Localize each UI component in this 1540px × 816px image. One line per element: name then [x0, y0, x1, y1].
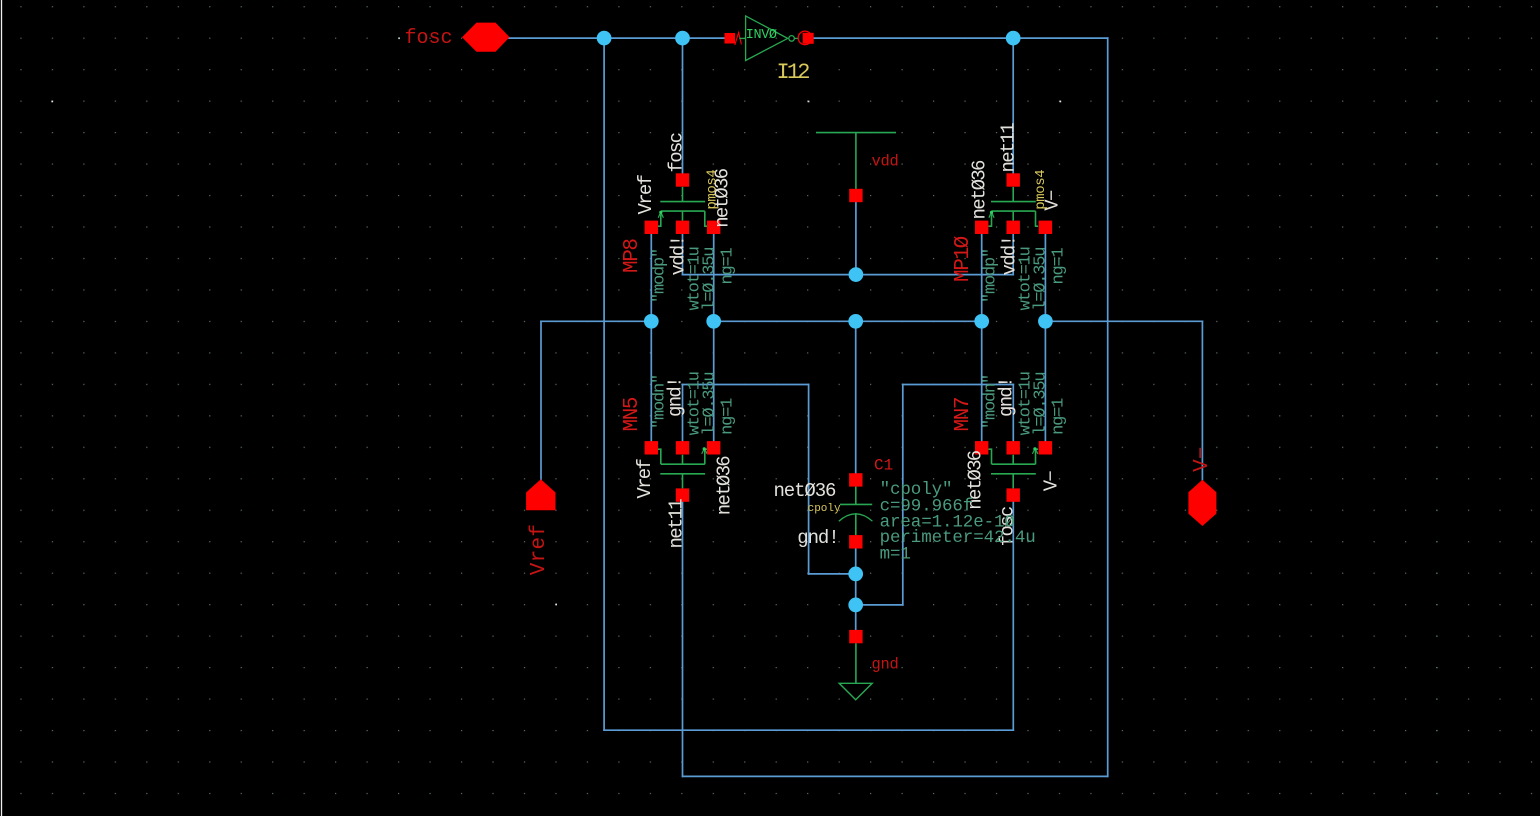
junction node fosc-B at x682 — [675, 31, 690, 46]
svg-text:l=Ø.35u: l=Ø.35u — [701, 373, 720, 436]
MN5 drain pin — [645, 441, 658, 454]
wire net11 bottom horizontal — [683, 775, 1108, 777]
wire V- drop to V- pin — [1201, 321, 1203, 480]
wire fosc bottom horizontal — [604, 729, 1013, 731]
wire fosc drop to MP8 gate — [682, 38, 684, 173]
port pin Vref (input pentagon) — [526, 479, 555, 510]
svg-text:m=1: m=1 — [880, 545, 911, 565]
svg-text:fosc: fosc — [665, 132, 687, 172]
junction node V- — [1038, 314, 1053, 329]
wire gnd stub into junction1 — [809, 573, 856, 575]
wire net11 horizontal from inverter output — [812, 37, 1108, 39]
port pin V- (output hexagon) — [1188, 480, 1216, 526]
inverter input stub — [739, 37, 745, 39]
svg-text:vdd: vdd — [872, 153, 899, 171]
bright grid mark A — [51, 101, 53, 103]
wire net036 horizontal — [714, 320, 982, 322]
wire gnd right horizontal — [903, 384, 1014, 386]
wire fosc riser to MN7 gate — [1012, 502, 1014, 731]
MP8 bulk pin — [676, 221, 689, 234]
wire gnd vertical C1-bottom to gnd symbol — [855, 542, 857, 637]
junction node net036-mid — [848, 314, 863, 329]
svg-text:l=Ø.35u: l=Ø.35u — [1031, 373, 1050, 436]
inverter triangle — [746, 16, 788, 61]
wire vdd to MP8 bulk pin — [682, 234, 684, 275]
MP10 bulk pin — [1007, 221, 1020, 234]
wire vdd stem below vdd symbol — [855, 202, 857, 275]
junction node net11 at x1013 — [1006, 31, 1021, 46]
wire net036 column MP10-left to MN7-left — [981, 234, 983, 441]
junction node Vref — [644, 314, 659, 329]
wire net11 drop to MP10 gate — [1012, 38, 1014, 173]
svg-text:ng=1: ng=1 — [1050, 398, 1069, 435]
svg-text:MN5: MN5 — [621, 397, 644, 431]
svg-text:MP1Ø: MP1Ø — [952, 236, 975, 282]
wire Vref horizontal — [541, 320, 651, 322]
wire Vref column MP8-left to MN5-left — [650, 234, 652, 441]
vdd stem — [855, 133, 857, 190]
svg-text:net11: net11 — [666, 499, 688, 549]
window border line left edge — [1, 0, 3, 816]
svg-text:ng=1: ng=1 — [719, 398, 738, 435]
svg-text:pmos4: pmos4 — [1033, 170, 1049, 210]
wire Vref drop to Vref pin — [540, 321, 542, 479]
ground pin square — [849, 630, 862, 643]
svg-text:l=Ø.35u: l=Ø.35u — [1031, 248, 1050, 311]
MN5 gate pin — [676, 488, 689, 501]
MN7 source pin — [1039, 441, 1052, 454]
wire net036 drop to C1 top — [855, 321, 857, 473]
svg-text:netØ36: netØ36 — [969, 160, 991, 220]
svg-text:V−: V− — [1041, 471, 1063, 492]
junction node net036-left — [706, 314, 721, 329]
MP8 drain pin — [707, 221, 720, 234]
MN5 bulk pin — [676, 441, 689, 454]
wire gnd MN5-bulk riser — [682, 385, 684, 442]
wire fosc vertical drop at x604 — [603, 38, 605, 730]
MN7 drain pin — [975, 441, 988, 454]
svg-text:I12: I12 — [777, 60, 810, 85]
inverter output bubble — [789, 36, 795, 42]
svg-text:gnd!: gnd! — [797, 527, 838, 549]
svg-text:net11: net11 — [998, 123, 1020, 173]
svg-text:MN7: MN7 — [952, 398, 975, 432]
svg-text:"modp": "modp" — [651, 249, 670, 303]
transistor MP10 (pmos4) symbol — [989, 187, 1039, 226]
MP10 source pin — [975, 221, 988, 234]
wire net036 column MP8-right to MN5-right — [713, 234, 715, 441]
svg-text:netØ36: netØ36 — [714, 456, 736, 516]
junction node net036-right — [974, 314, 989, 329]
svg-text:Vref: Vref — [634, 458, 656, 498]
transistor MP8 (pmos4) symbol — [658, 187, 708, 226]
svg-text:V−: V− — [1191, 447, 1214, 472]
wire vdd to MP10 bulk pin — [1012, 234, 1014, 275]
MP8 source pin — [645, 221, 658, 234]
wire gnd stub into junction2 — [856, 604, 903, 606]
MP10 drain pin — [1039, 221, 1052, 234]
junction node vdd stem — [849, 267, 864, 282]
ground triangle — [839, 683, 872, 700]
inverter U-I12 output pin square — [803, 33, 814, 44]
transistor MN5 (nmos) symbol — [658, 447, 708, 488]
svg-text:INVØ: INVØ — [746, 28, 777, 43]
capacitor C1 bottom plate arc — [839, 514, 873, 521]
svg-text:netØ36: netØ36 — [774, 480, 837, 502]
svg-text:MP8: MP8 — [621, 239, 644, 273]
MP10 gate pin — [1007, 173, 1020, 186]
MN7 bulk pin — [1007, 441, 1020, 454]
svg-text:l=Ø.35u: l=Ø.35u — [701, 248, 720, 311]
inverter output stub — [794, 37, 798, 39]
capacitor C1 symbol top plate — [855, 487, 857, 505]
bright grid mark E — [555, 604, 557, 606]
svg-text:fosc: fosc — [405, 27, 453, 50]
vdd pin square — [849, 189, 862, 202]
svg-text:C1: C1 — [874, 457, 893, 475]
inverter output red circle — [798, 31, 812, 45]
junction node gnd junction2 — [848, 598, 863, 613]
wire vdd horizontal rail — [683, 274, 1014, 276]
wire V- column MP10-right to MN7-right — [1044, 234, 1046, 441]
bright grid mark C — [808, 101, 810, 103]
wire gnd left vertical at x808 — [808, 385, 810, 574]
bright grid mark D — [1060, 101, 1062, 103]
svg-text:Vref: Vref — [528, 524, 551, 576]
wire net11 right vertical at x1107 — [1107, 38, 1109, 776]
MP8 gate pin — [676, 173, 689, 186]
capacitor C1 bottom lead — [855, 513, 857, 535]
wire gnd MN7-bulk riser — [1012, 385, 1014, 442]
MN7 gate pin — [1007, 488, 1020, 501]
power symbol vdd bar — [816, 132, 896, 134]
junction node gnd junction1 — [848, 567, 863, 582]
ground stem — [855, 643, 857, 683]
wire net11 riser to MN5 gate — [682, 502, 684, 777]
svg-text:gnd!: gnd! — [665, 378, 687, 417]
svg-text:cpoly: cpoly — [808, 503, 841, 515]
C1 top pin — [849, 473, 862, 486]
wire gnd right vertical at x902 — [902, 385, 904, 605]
svg-text:pmos4: pmos4 — [704, 170, 720, 210]
svg-text:gnd!: gnd! — [995, 378, 1017, 417]
inverter U-I12 input pin square — [725, 33, 736, 44]
MN5 source pin — [707, 441, 720, 454]
port pin fosc (input hexagon) — [462, 23, 510, 52]
svg-text:Vref: Vref — [635, 174, 657, 214]
wire V- horizontal — [1045, 320, 1202, 322]
bright grid mark B — [398, 37, 400, 39]
junction node fosc-A at x604 — [597, 31, 612, 46]
svg-text:ng=1: ng=1 — [719, 247, 738, 284]
C1 bottom pin — [849, 535, 862, 548]
svg-text:"modp": "modp" — [981, 249, 1000, 303]
wire fosc horizontal from pin to inverter input — [509, 37, 727, 39]
svg-text:ng=1: ng=1 — [1050, 247, 1069, 284]
transistor MN7 (nmos) symbol — [989, 447, 1039, 488]
inverter input red stub mark — [735, 33, 742, 45]
wire gnd left horizontal — [683, 384, 809, 386]
svg-text:gnd: gnd — [872, 656, 899, 674]
